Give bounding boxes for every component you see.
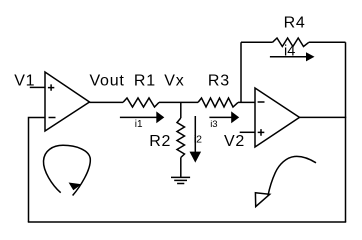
annotation loop arrow (bottom left) xyxy=(43,145,90,195)
svg-text:Vx: Vx xyxy=(164,73,184,90)
svg-text:i1: i1 xyxy=(135,119,143,130)
wire right side feedback xyxy=(345,42,347,222)
wire V1 to U1 + input xyxy=(30,86,45,88)
wire R3 to U2 - input xyxy=(238,101,255,103)
current arrow i1 xyxy=(120,111,164,130)
current arrow i2 xyxy=(190,116,203,163)
resistor R1 xyxy=(123,73,159,108)
current arrow i3 xyxy=(209,111,239,129)
resistor R4 xyxy=(241,14,346,46)
ground xyxy=(171,177,190,183)
wire U1 - input feedback (left side) xyxy=(29,118,46,223)
svg-text:R2: R2 xyxy=(149,133,171,150)
svg-text:R3: R3 xyxy=(208,73,230,90)
svg-text:i4: i4 xyxy=(284,44,295,60)
wire R1 to R3 through Vx xyxy=(159,101,198,103)
svg-text:R1: R1 xyxy=(134,73,156,90)
wire bottom feedback xyxy=(28,221,346,223)
svg-text:i3: i3 xyxy=(210,119,217,130)
resistor R2 xyxy=(149,102,184,177)
op-amp U1 xyxy=(45,72,90,131)
wire V2 to U2 + input xyxy=(240,131,255,133)
svg-text:R4: R4 xyxy=(284,14,306,31)
wire feedback node to R4 (vertical) xyxy=(240,42,242,102)
svg-text:V2: V2 xyxy=(224,133,245,150)
annotation curve arrow (bottom right) xyxy=(255,156,316,206)
wire U2 output to right feedback xyxy=(300,116,347,118)
svg-text:Vout: Vout xyxy=(90,73,125,90)
svg-text:i2: i2 xyxy=(194,133,202,145)
wire U1 output to R1 xyxy=(90,101,124,103)
current arrow i4 xyxy=(270,44,315,62)
op-amp U2 xyxy=(255,88,300,147)
resistor R3 xyxy=(198,73,238,108)
